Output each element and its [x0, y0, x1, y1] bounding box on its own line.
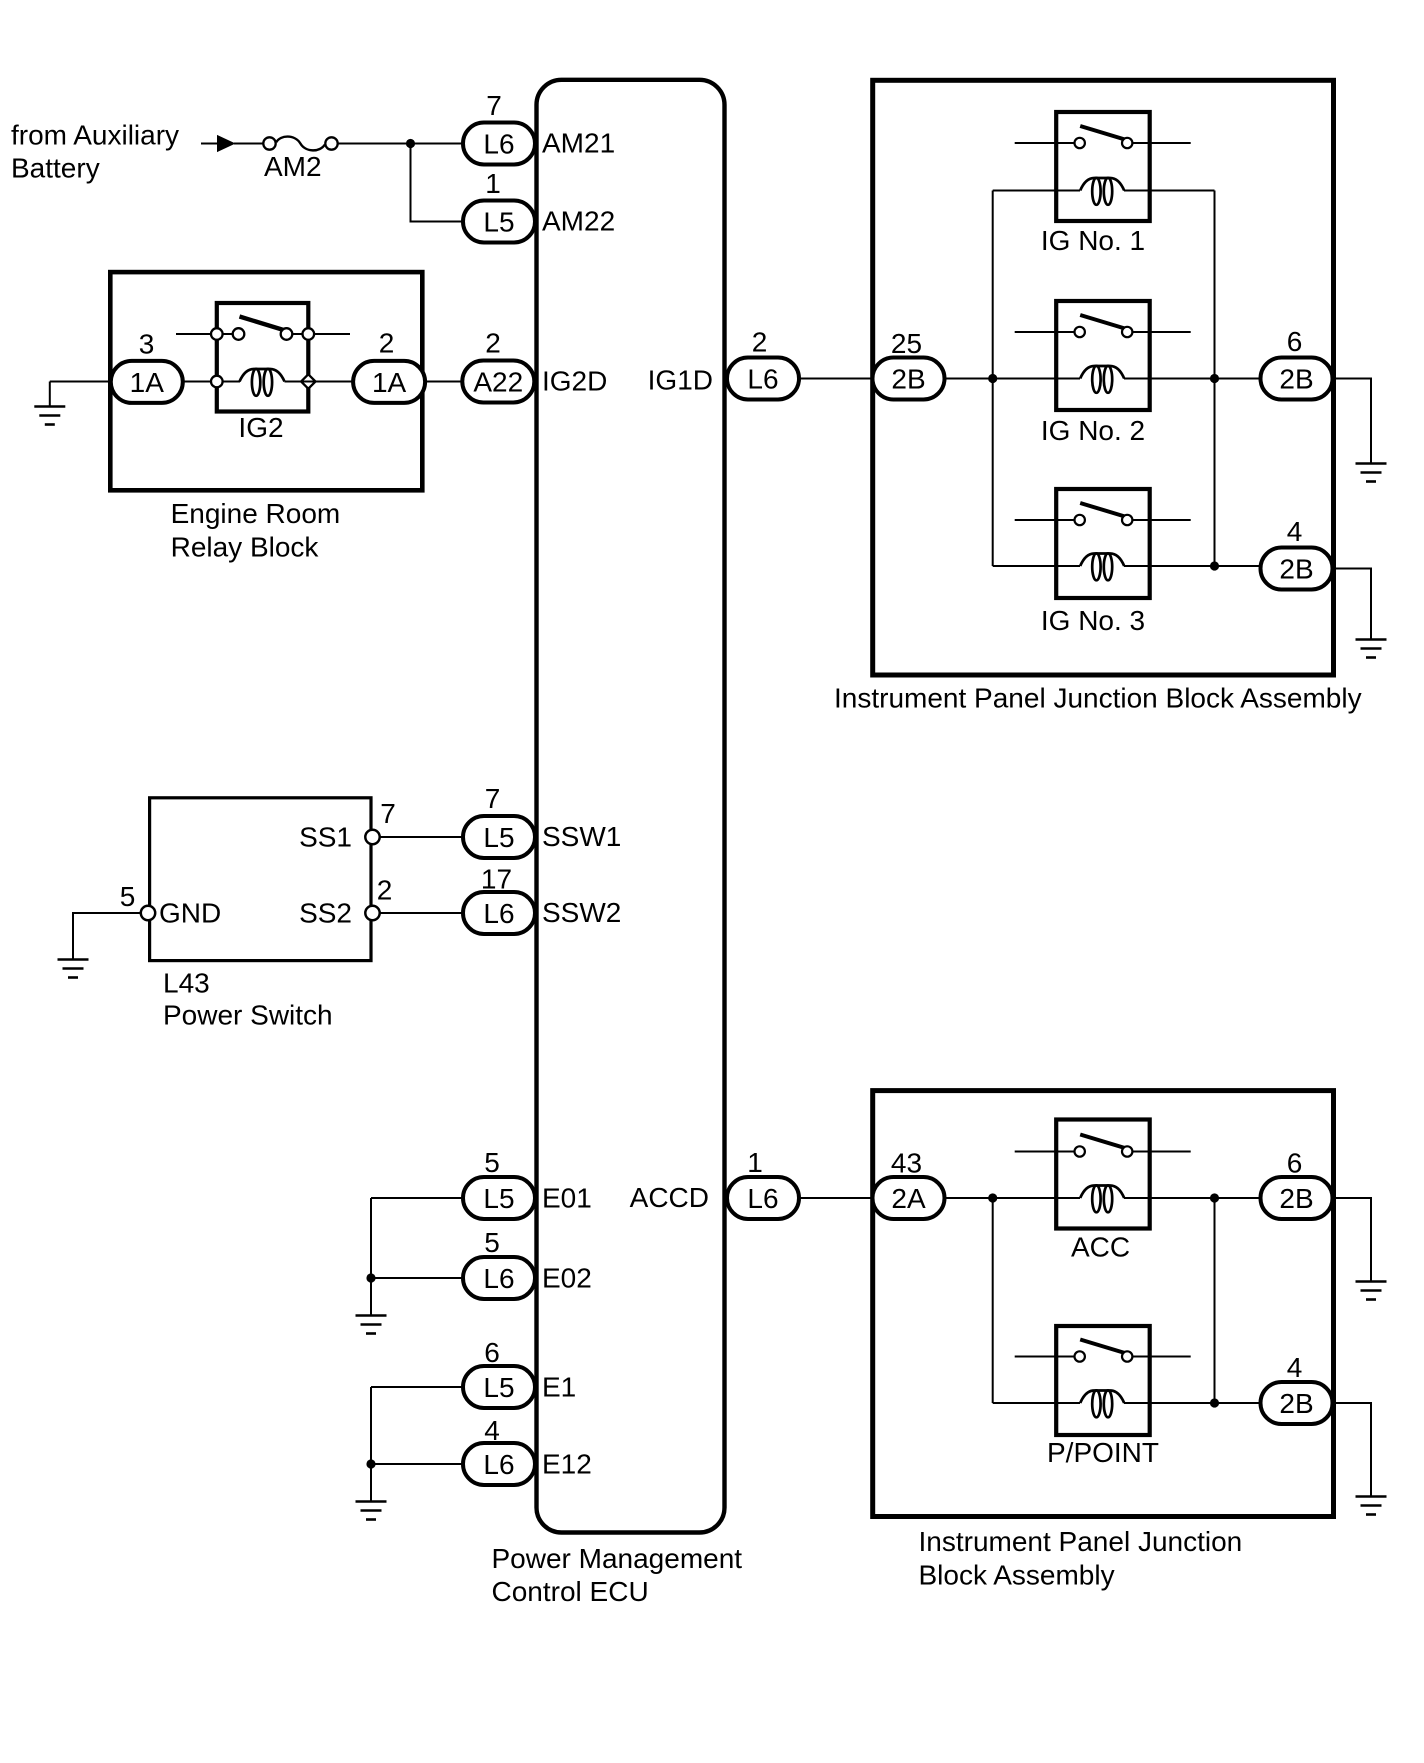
svg-text:AM22: AM22	[542, 206, 615, 237]
wire IG1D to 2B-25	[799, 378, 873, 380]
wire E1 to ground bus	[371, 1386, 464, 1388]
svg-text:from Auxiliary: from Auxiliary	[11, 119, 179, 150]
connector L6 (AM21)	[463, 123, 535, 165]
relay ACC box	[1056, 1120, 1150, 1229]
wire branch to AM22	[411, 144, 464, 222]
connector L5 (E01)	[463, 1177, 535, 1219]
relay IG No. 1 coil	[1080, 178, 1124, 205]
ground power switch	[58, 960, 89, 978]
svg-text:A22: A22	[473, 367, 523, 398]
ground 2B-4 upper	[1356, 640, 1387, 658]
ground E01/E02	[356, 1316, 387, 1334]
wire fuse to AM21	[338, 143, 464, 145]
wire 1A to IG2 relay	[182, 381, 240, 383]
connector L5 (E1)	[463, 1366, 535, 1408]
wire right bus vertical upper	[1214, 191, 1216, 567]
wire IG2 to 1A right	[285, 381, 354, 383]
svg-text:L6: L6	[747, 1183, 778, 1214]
svg-text:SS1: SS1	[299, 822, 352, 853]
relay P/POINT switch	[1015, 1340, 1191, 1362]
svg-text:Engine Room: Engine Room	[171, 498, 341, 529]
terminal SS2 circle	[365, 906, 379, 920]
svg-text:6: 6	[1287, 1148, 1303, 1179]
svg-text:Power Management: Power Management	[492, 1543, 743, 1574]
relay ACC switch	[1015, 1135, 1191, 1157]
svg-text:L6: L6	[747, 364, 778, 395]
relay IG No. 1 switch	[1015, 126, 1191, 148]
ground 2B-6 lower	[1356, 1282, 1387, 1300]
svg-text:L5: L5	[483, 207, 514, 238]
junction left bus lower	[988, 1193, 997, 1202]
svg-text:2A: 2A	[891, 1183, 926, 1214]
svg-text:L5: L5	[483, 1372, 514, 1403]
Instrument Panel Junction Block Assembly (upper) box	[873, 80, 1334, 675]
svg-text:IG2: IG2	[238, 412, 283, 443]
wire 2B-4 upper to ground	[1333, 569, 1371, 640]
junction right bus lower bottom	[1210, 1398, 1219, 1407]
connector 2B (6 upper)	[1261, 358, 1333, 400]
connector L6 (ACCD)	[727, 1177, 799, 1219]
svg-text:GND: GND	[159, 898, 221, 929]
arrow from auxiliary battery	[217, 135, 236, 152]
svg-text:5: 5	[484, 1227, 500, 1258]
Engine Room Relay Block box	[110, 272, 422, 490]
junction right bus lower top	[1210, 1193, 1219, 1202]
svg-text:1: 1	[747, 1147, 763, 1178]
wire E01 to ground bus	[371, 1197, 464, 1199]
svg-text:L43: L43	[163, 968, 210, 999]
wire ACCD to 2A-43	[799, 1197, 873, 1199]
svg-text:SSW1: SSW1	[542, 821, 621, 852]
svg-text:2: 2	[377, 875, 393, 906]
wire 2B-6 upper to ground	[1333, 379, 1371, 464]
svg-text:Battery: Battery	[11, 153, 100, 184]
svg-text:4: 4	[1287, 1352, 1303, 1383]
svg-text:AM21: AM21	[542, 128, 615, 159]
wire IG No.1 coil right	[1124, 190, 1215, 192]
wire left bus vertical upper	[992, 191, 994, 567]
svg-text:7: 7	[486, 90, 502, 121]
svg-text:1: 1	[485, 168, 501, 199]
wire arrow to fuse	[234, 143, 263, 145]
svg-text:P/POINT: P/POINT	[1047, 1437, 1159, 1468]
connector 1A right	[353, 361, 425, 403]
relay ACC coil	[1080, 1185, 1124, 1212]
svg-text:Control ECU: Control ECU	[492, 1576, 649, 1607]
relay IG2 coil terminal circle	[211, 376, 223, 388]
wire ACC coil right	[1124, 1197, 1260, 1199]
connector 2B (4 upper)	[1261, 548, 1333, 590]
relay IG No. 3 switch	[1015, 503, 1191, 525]
relay IG2 coil	[240, 369, 285, 396]
svg-text:L6: L6	[483, 129, 514, 160]
wire E02 to ground bus	[371, 1277, 464, 1279]
ground 2B-4 lower	[1356, 1497, 1387, 1515]
connector A22 (IG2D)	[462, 361, 534, 403]
svg-text:L6: L6	[483, 1449, 514, 1480]
relay IG No. 2 box	[1056, 301, 1150, 410]
relay IG2 switch	[176, 317, 350, 340]
svg-text:Instrument Panel Junction Bloc: Instrument Panel Junction Block Assembly	[834, 683, 1362, 714]
connector 2B (25)	[873, 358, 945, 400]
wire P/POINT coil left feed	[993, 1402, 1080, 1404]
svg-text:L5: L5	[483, 822, 514, 853]
ground engine room relay block	[34, 407, 65, 425]
wire ground drop	[49, 382, 51, 407]
L43 Power Switch box	[150, 798, 371, 961]
relay IG No. 1 box	[1056, 112, 1150, 221]
svg-text:E02: E02	[542, 1263, 592, 1294]
svg-text:5: 5	[120, 881, 136, 912]
relay IG No. 3 coil	[1080, 553, 1124, 580]
relay IG2 coil terminal diamond	[301, 374, 315, 388]
junction E ground bus	[366, 1273, 375, 1282]
wire 2B-4 lower to ground	[1333, 1403, 1371, 1496]
connector L6 (E12)	[463, 1443, 535, 1485]
svg-text:2B: 2B	[1279, 364, 1313, 395]
svg-text:IG No. 1: IG No. 1	[1041, 225, 1145, 256]
svg-text:SSW2: SSW2	[542, 897, 621, 928]
svg-text:IG No. 2: IG No. 2	[1041, 415, 1145, 446]
relay IG No. 2 coil	[1080, 366, 1124, 393]
ground E1/E12	[356, 1502, 387, 1520]
svg-text:Relay Block: Relay Block	[171, 532, 320, 563]
wire IG No.2 coil right	[1124, 378, 1260, 380]
svg-text:IG No. 3: IG No. 3	[1041, 605, 1145, 636]
svg-text:2: 2	[379, 328, 395, 359]
svg-text:IG1D: IG1D	[648, 365, 713, 396]
connector L6 (SSW2)	[463, 892, 535, 934]
svg-text:6: 6	[1287, 326, 1303, 357]
wire IG No.3 coil left feed	[993, 565, 1080, 567]
connector 1A left	[111, 361, 183, 403]
svg-text:SS2: SS2	[299, 898, 352, 929]
svg-text:L5: L5	[483, 1183, 514, 1214]
svg-text:L6: L6	[483, 898, 514, 929]
wire 2A to ACC coil	[945, 1197, 1080, 1199]
ground 2B-6 upper	[1356, 464, 1387, 482]
wire SS2 to SSW2	[380, 912, 464, 914]
wire 1A right to A22	[425, 381, 464, 383]
connector L6 (IG1D)	[727, 358, 799, 400]
wire left bus vertical lower	[992, 1198, 994, 1403]
wire battery feed lead	[201, 143, 220, 145]
svg-text:2B: 2B	[891, 364, 925, 395]
svg-text:IG2D: IG2D	[542, 366, 607, 397]
wire right bus vertical lower	[1214, 1198, 1216, 1403]
relay P/POINT box	[1056, 1326, 1150, 1435]
svg-text:1A: 1A	[372, 367, 407, 398]
junction E1/E12 ground bus	[366, 1459, 375, 1468]
wire 2B-6 lower to ground	[1333, 1198, 1371, 1281]
connector 2A (43)	[873, 1177, 945, 1219]
svg-text:43: 43	[891, 1148, 922, 1179]
junction right bus at IG1D row	[1210, 374, 1219, 383]
relay P/POINT coil	[1080, 1390, 1124, 1417]
Instrument Panel Junction Block Assembly (lower) box	[873, 1091, 1334, 1517]
terminal GND circle	[141, 906, 155, 920]
junction left bus upper	[988, 374, 997, 383]
junction right bus at IG No.3 row	[1210, 561, 1219, 570]
relay IG No. 3 box	[1056, 489, 1150, 598]
wire 1A to ground	[50, 381, 111, 383]
relay IG No. 2 switch	[1015, 315, 1191, 337]
svg-text:2B: 2B	[1279, 1388, 1313, 1419]
wire E12 to ground bus	[371, 1463, 464, 1465]
svg-text:E01: E01	[542, 1183, 592, 1214]
svg-text:E12: E12	[542, 1449, 592, 1480]
svg-text:6: 6	[484, 1337, 500, 1368]
svg-text:7: 7	[485, 783, 501, 814]
svg-text:Block Assembly: Block Assembly	[919, 1560, 1115, 1591]
svg-text:7: 7	[380, 798, 396, 829]
wire GND to ground	[73, 913, 141, 959]
svg-text:5: 5	[484, 1147, 500, 1178]
svg-text:Instrument Panel Junction: Instrument Panel Junction	[919, 1526, 1243, 1557]
connector L6 (E02)	[463, 1257, 535, 1299]
svg-text:L6: L6	[483, 1263, 514, 1294]
svg-text:ACC: ACC	[1071, 1232, 1130, 1263]
svg-text:Power Switch: Power Switch	[163, 1000, 333, 1031]
svg-text:2B: 2B	[1279, 554, 1313, 585]
svg-text:1A: 1A	[130, 367, 165, 398]
svg-text:ACCD: ACCD	[630, 1182, 709, 1213]
wire E1 ground bus vertical	[370, 1387, 372, 1501]
connector 2B (6 lower)	[1261, 1177, 1333, 1219]
svg-text:3: 3	[139, 329, 155, 360]
connector 2B (4 lower)	[1261, 1382, 1333, 1424]
wire P/POINT coil right	[1124, 1402, 1260, 1404]
svg-text:AM2: AM2	[264, 151, 322, 182]
svg-text:2: 2	[752, 327, 768, 358]
connector L5 (AM22)	[463, 201, 535, 243]
svg-text:25: 25	[891, 328, 922, 359]
fusible link AM2	[263, 137, 337, 151]
wire IG No.1 coil left feed	[993, 190, 1080, 192]
ECU body: Power Management Control ECU	[537, 80, 725, 1533]
svg-text:E1: E1	[542, 1372, 576, 1403]
wire 2B-25 to IG No.2	[945, 378, 1080, 380]
wire IG No.3 coil right	[1124, 565, 1260, 567]
svg-text:2B: 2B	[1279, 1183, 1313, 1214]
terminal SS1 circle	[365, 830, 379, 844]
junction AM2 branch	[406, 139, 415, 148]
relay IG2 box	[217, 303, 308, 412]
svg-text:17: 17	[481, 864, 512, 895]
connector L5 (SSW1)	[463, 816, 535, 858]
svg-text:4: 4	[1287, 516, 1303, 547]
wire SS1 to SSW1	[380, 836, 464, 838]
svg-text:2: 2	[485, 328, 501, 359]
wire E ground bus vertical	[370, 1198, 372, 1315]
